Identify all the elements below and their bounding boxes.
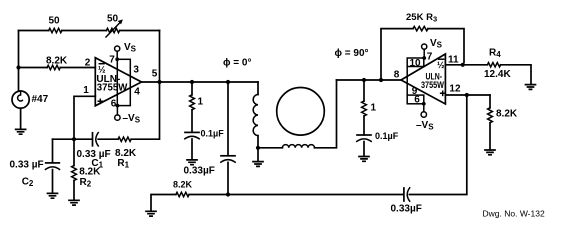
- node dot phi90/1-ohm branch: [362, 78, 366, 82]
- svg-text:C2: C2: [22, 177, 34, 189]
- capacitor C2 0.33uF (shunt to ground): [10, 139, 60, 193]
- svg-text:3: 3: [133, 65, 139, 76]
- svg-text:–VS: –VS: [123, 113, 141, 125]
- ground (left 0.1uF): [187, 160, 197, 165]
- op-amp U2 box connector: [406, 67, 408, 96]
- svg-text:9: 9: [412, 86, 418, 97]
- -Vs supply terminal (U2 pin 6): [416, 102, 434, 132]
- svg-text:VS: VS: [430, 38, 443, 50]
- op-amp U2 box pin 10: [407, 58, 424, 67]
- wire feedback vertical (50-ohm loop down to R1): [131, 31, 159, 140]
- ground (motor common): [253, 148, 263, 167]
- node pin 7 dot (U2): [422, 56, 426, 60]
- op-amp U1 non-inverting plus sign: [98, 99, 102, 103]
- svg-text:0.33 µF: 0.33 µF: [10, 160, 44, 171]
- op-amp U1 internal box (pins 3/4 stage): [117, 59, 130, 105]
- svg-text:12: 12: [449, 84, 461, 95]
- svg-text:1: 1: [371, 103, 377, 114]
- svg-text:8.2K: 8.2K: [173, 180, 193, 190]
- op-amp U2 inverting minus sign: [439, 58, 444, 60]
- wire pin 12: [445, 94, 490, 96]
- svg-text:8.2K: 8.2K: [46, 55, 68, 66]
- node dot pin11/R3: [461, 63, 465, 67]
- motor stator circle: [277, 88, 325, 136]
- svg-text:8.2K: 8.2K: [496, 108, 518, 119]
- ground (right 8.2K): [485, 150, 495, 155]
- svg-text:12.4K: 12.4K: [484, 69, 511, 80]
- lamp #47: [12, 91, 49, 129]
- svg-text:25K R3: 25K R3: [406, 12, 437, 24]
- svg-text:R1: R1: [117, 158, 129, 170]
- motor winding 1 (vertical coil from phi=0): [253, 82, 258, 148]
- svg-text:3755W: 3755W: [421, 80, 444, 90]
- wire output node phi=0: [142, 81, 259, 83]
- svg-text:R2: R2: [80, 177, 92, 189]
- resistor R1 8.2K: [115, 137, 137, 170]
- svg-text:8: 8: [394, 70, 400, 81]
- wire bottom net (pin 12 to 8.2K/ground): [151, 95, 467, 211]
- resistor R3 25K (feedback loop): [381, 12, 464, 80]
- svg-text:ϕ = 0°: ϕ = 0°: [223, 58, 251, 69]
- svg-text:–VS: –VS: [416, 120, 434, 132]
- svg-text:5: 5: [152, 69, 158, 80]
- motor winding 2 (horizontal coil to phi=90): [258, 80, 337, 148]
- svg-text:8.2K: 8.2K: [79, 167, 101, 178]
- ground (right 0.1uF): [359, 157, 369, 162]
- op-amp U1 inverting input minus sign: [99, 63, 104, 65]
- Vs supply terminal (U1 pin 7): [115, 42, 137, 59]
- svg-text:1: 1: [198, 97, 204, 108]
- capacitor 0.33uF (phi=0 shunt branch): [184, 82, 236, 195]
- node dot pin12/bottom net: [465, 93, 469, 97]
- capacitor C1 0.33uF (series): [77, 133, 111, 170]
- wire pin 1 input: [74, 96, 95, 139]
- ground (lamp): [16, 129, 26, 134]
- svg-text:#47: #47: [32, 94, 49, 105]
- wire pin 11 to R4: [445, 64, 487, 66]
- svg-text:50: 50: [107, 14, 119, 25]
- node dot phi90/25K feedback: [379, 78, 383, 82]
- capacitor 0.33uF (series, bottom net): [391, 188, 422, 215]
- resistor 1 ohm (right phase branch): [362, 80, 377, 135]
- op-amp U2 plus sign: [441, 91, 445, 95]
- op-amp U2 box pin 6: [407, 95, 424, 104]
- node dot output/1-ohm branch: [190, 80, 194, 84]
- resistor R2 8.2K (shunt to ground): [72, 139, 102, 199]
- node dot output/0.33uF branch: [226, 80, 230, 84]
- wire left vertical from top wire to lamp: [18, 31, 20, 92]
- resistor 8.2K (bottom): [173, 180, 193, 197]
- svg-text:3755W: 3755W: [97, 83, 128, 94]
- ground (C2): [48, 193, 58, 198]
- svg-text:11: 11: [448, 55, 459, 66]
- capacitor 0.1uF (left phase branch): [185, 129, 224, 160]
- capacitor 0.1uF (right phase branch): [357, 131, 399, 156]
- node junction (top wire / 8.2K / lamp): [16, 65, 20, 69]
- Vs supply terminal (U2 pin 7): [422, 38, 443, 58]
- svg-text:50: 50: [49, 16, 61, 27]
- wire pin 2 input (8.2K run): [19, 67, 96, 69]
- ground (R2): [69, 200, 79, 205]
- svg-text:6: 6: [111, 98, 117, 109]
- op-amp U2 1/2 ULN-3755W triangle (mirrored): [401, 54, 445, 104]
- svg-text:Dwg. No. W-132: Dwg. No. W-132: [483, 209, 545, 219]
- node dot output/feedback: [157, 80, 161, 84]
- svg-text:10: 10: [409, 58, 421, 69]
- svg-text:2: 2: [85, 57, 91, 68]
- svg-text:0.1µF: 0.1µF: [375, 131, 399, 141]
- resistor R4 12.4K: [484, 48, 531, 85]
- svg-text:7: 7: [109, 55, 115, 66]
- resistor 8.2K (input, left): [46, 55, 68, 69]
- node pin7 junction dot: [115, 57, 119, 61]
- wire node phi=90: [337, 79, 402, 81]
- svg-text:0.1µF: 0.1µF: [201, 129, 225, 139]
- op-amp U1 1/2 ULN-3755W triangle: [95, 58, 141, 106]
- node dot pin1 net: [72, 137, 76, 141]
- svg-text:VS: VS: [124, 42, 137, 54]
- ground (bottom left): [146, 211, 156, 216]
- resistor 50 (fixed) value 50: [49, 16, 62, 33]
- wire top feedback horizontal: [19, 30, 160, 32]
- svg-text:R4: R4: [489, 48, 501, 60]
- svg-text:ϕ = 90°: ϕ = 90°: [335, 48, 369, 59]
- svg-text:7: 7: [427, 52, 433, 63]
- wire C2/pin1/C1 net: [53, 138, 119, 140]
- resistor 1 ohm (left phase branch): [190, 82, 204, 132]
- -Vs supply terminal (U1 pin 6): [115, 104, 141, 125]
- svg-text:0.33µF: 0.33µF: [184, 166, 215, 177]
- svg-text:4: 4: [134, 87, 140, 98]
- resistor 8.2K (right shunt): [488, 95, 518, 149]
- ground (R4): [526, 85, 536, 90]
- svg-text:½: ½: [437, 60, 445, 70]
- svg-text:1: 1: [83, 85, 89, 96]
- node motor common junction: [256, 146, 260, 150]
- node dot bottom net / 0.33uF branch: [226, 192, 230, 196]
- resistor 50 (variable potentiometer) value 50: [106, 14, 123, 38]
- svg-text:0.33µF: 0.33µF: [391, 204, 422, 215]
